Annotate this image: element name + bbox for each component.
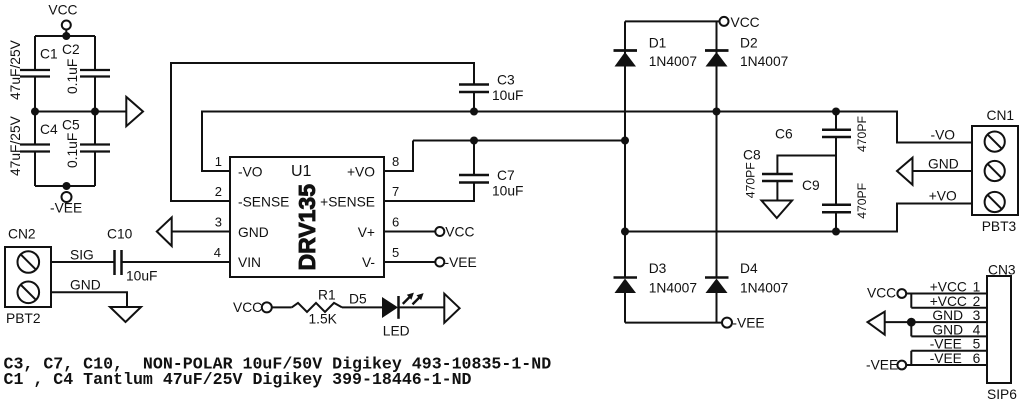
svg-text:470PF: 470PF	[855, 183, 869, 219]
wire CN3 pin4 tie	[911, 322, 987, 336]
junction dot C3 bottom	[470, 108, 478, 116]
wire C1 branch	[34, 36, 36, 112]
junction dot C7 top	[470, 137, 478, 145]
svg-text:470PF: 470PF	[744, 162, 758, 198]
svg-text:PBT2: PBT2	[6, 311, 41, 326]
svg-text:D5: D5	[349, 292, 367, 307]
capacitor C1	[20, 70, 50, 77]
svg-text:+VO: +VO	[929, 189, 957, 204]
diode D3 bar	[614, 276, 638, 279]
svg-text:1.5K: 1.5K	[309, 312, 338, 327]
svg-text:1N4007: 1N4007	[740, 54, 788, 69]
svg-text:6: 6	[973, 351, 981, 366]
svg-text:-VO: -VO	[931, 128, 956, 143]
wire VEE bottom bridge	[625, 322, 722, 324]
svg-text:CN1: CN1	[987, 108, 1015, 123]
svg-text:C6: C6	[775, 127, 793, 142]
svg-text:GND: GND	[932, 322, 963, 337]
LED D5 triangle	[382, 297, 398, 318]
svg-text:-VEE: -VEE	[930, 351, 962, 366]
svg-text:R1: R1	[318, 287, 336, 302]
wire CN3 pin5	[911, 350, 987, 352]
svg-text:47uF/25V: 47uF/25V	[8, 115, 23, 176]
svg-text:C1: C1	[40, 47, 58, 62]
svg-text:3: 3	[215, 215, 222, 230]
svg-text:V+: V+	[358, 225, 375, 240]
svg-text:0.1uF: 0.1uF	[65, 133, 80, 168]
svg-text:+VO: +VO	[347, 165, 375, 180]
svg-text:CN2: CN2	[8, 227, 36, 242]
svg-text:GND: GND	[932, 308, 963, 323]
wire +VO lower run	[625, 204, 972, 232]
svg-text:C5: C5	[62, 118, 80, 133]
capacitor C2	[80, 70, 110, 77]
svg-text:D3: D3	[649, 261, 667, 276]
node VCC terminal R1	[262, 302, 272, 312]
wire C-network top	[35, 35, 95, 37]
wire CN3 pin1	[906, 293, 987, 295]
wire C7 top stub	[473, 141, 475, 175]
svg-text:4: 4	[973, 322, 981, 337]
wire C2 branch	[94, 36, 96, 112]
diode D3	[615, 279, 637, 294]
wire C7 bottom to pin7	[384, 183, 474, 201]
junction dot VCC top-left	[62, 32, 70, 40]
svg-text:U1: U1	[291, 163, 312, 180]
node -VEE terminal CN3	[897, 361, 906, 370]
svg-text:C1 , C4 Tantlum 47uF/25V Digik: C1 , C4 Tantlum 47uF/25V Digikey 399-184…	[4, 370, 472, 389]
node -VEE terminal	[62, 192, 72, 202]
svg-text:10uF: 10uF	[492, 88, 523, 103]
svg-text:4: 4	[214, 245, 221, 260]
node VCC terminal pin6	[435, 227, 444, 236]
svg-text:+VCC: +VCC	[930, 280, 967, 295]
wire CN3 pin2 tie	[911, 294, 987, 308]
port arrow GND pin3	[157, 217, 172, 246]
svg-text:-VEE: -VEE	[50, 201, 82, 216]
svg-text:GND: GND	[238, 225, 269, 240]
svg-text:1N4007: 1N4007	[740, 281, 788, 296]
capacitor C10	[115, 250, 122, 275]
wire D2-D4 column	[716, 21, 718, 322]
port arrow CN3 GND	[868, 312, 885, 335]
wire SIG	[51, 261, 114, 263]
diode D1	[615, 52, 637, 67]
junction dot mid-left	[31, 108, 39, 116]
svg-text:C8: C8	[743, 148, 761, 163]
node VEE terminal pin5	[435, 258, 444, 267]
wire pin1 -VO net	[202, 112, 972, 172]
svg-text:5: 5	[973, 337, 981, 352]
wire pin3 GND	[172, 231, 230, 233]
junction dot D3 cathode	[621, 228, 629, 236]
svg-text:-VEE: -VEE	[866, 358, 898, 373]
svg-text:+VCC: +VCC	[930, 294, 967, 309]
svg-text:-SENSE: -SENSE	[238, 195, 289, 210]
svg-text:GND: GND	[928, 157, 959, 172]
svg-text:2: 2	[215, 184, 222, 199]
svg-text:10uF: 10uF	[126, 269, 157, 284]
svg-text:-VO: -VO	[238, 165, 263, 180]
svg-text:10uF: 10uF	[492, 184, 523, 199]
wire C5 branch	[94, 112, 96, 187]
junction dot C9 bottom	[832, 228, 840, 236]
wire C4 branch	[34, 112, 36, 187]
junction dot bottom-left net	[63, 182, 71, 190]
node VEE terminal bridge	[722, 318, 732, 328]
port arrow CN1 GND	[897, 158, 913, 185]
svg-text:D2: D2	[740, 36, 758, 51]
svg-text:C3: C3	[497, 73, 515, 88]
wire C6 to C9	[835, 138, 837, 204]
diode D4 bar	[705, 276, 729, 279]
svg-text:1: 1	[973, 280, 981, 295]
wire GND from CN2	[51, 292, 127, 307]
capacitor C7	[459, 175, 489, 183]
LED D5 emission arrow 2	[413, 298, 420, 305]
svg-text:CN3: CN3	[988, 263, 1016, 278]
junction dot D2 anode	[713, 108, 721, 116]
junction dot mid-right	[91, 108, 99, 116]
svg-text:D4: D4	[740, 261, 758, 276]
svg-text:0.1uF: 0.1uF	[65, 59, 80, 94]
svg-text:VCC: VCC	[445, 225, 474, 240]
svg-text:GND: GND	[70, 278, 101, 293]
svg-text:D1: D1	[649, 36, 667, 51]
wire R1 to D5	[342, 306, 382, 308]
svg-text:1: 1	[215, 154, 222, 169]
svg-text:V-: V-	[362, 255, 375, 270]
wire C3 bottom stub	[473, 93, 475, 112]
svg-text:6: 6	[392, 215, 399, 230]
svg-text:C10: C10	[107, 227, 133, 242]
screw terminal CN2-2	[18, 282, 40, 304]
svg-text:47uF/25V: 47uF/25V	[8, 39, 23, 100]
svg-text:DRV135: DRV135	[294, 184, 320, 271]
node VCC top-left terminal	[62, 21, 71, 30]
svg-text:2: 2	[973, 294, 981, 309]
svg-text:C9: C9	[802, 178, 820, 193]
capacitor C4	[20, 145, 50, 152]
svg-text:C7: C7	[497, 168, 515, 183]
junction dot C6 top	[832, 108, 840, 116]
screw terminal CN1-2	[985, 161, 1005, 181]
wire pin8 +VO net	[384, 141, 625, 172]
screw terminal CN2-1	[18, 251, 40, 273]
screw terminal CN1-3	[985, 192, 1005, 212]
diode D2 bar	[705, 49, 729, 52]
svg-text:470PF: 470PF	[855, 116, 869, 152]
wire C8 to ground	[776, 182, 778, 201]
node VCC terminal bridge	[720, 17, 729, 26]
wire pin6 V+	[384, 231, 435, 233]
svg-text:1N4007: 1N4007	[649, 281, 697, 296]
connector CN2 body	[5, 247, 51, 307]
connector CN3 body	[987, 276, 1011, 383]
resistor R1	[292, 303, 342, 312]
junction dot D1 anode	[621, 137, 629, 145]
wire C-network middle	[35, 111, 127, 113]
svg-text:C2: C2	[62, 42, 80, 57]
svg-text:8: 8	[392, 154, 399, 169]
ground symbol CN2	[110, 307, 141, 322]
node VCC terminal CN3	[897, 289, 906, 298]
wire C8 branch	[777, 156, 836, 174]
wire pin4 VIN from C10	[123, 261, 231, 263]
wire CN3 pin6 tie	[906, 351, 987, 365]
wire D5 to arrow	[400, 306, 445, 308]
svg-text:VCC: VCC	[48, 3, 77, 18]
diode D4	[706, 279, 728, 294]
wire CN3 pin3	[885, 321, 987, 323]
diode D1 bar	[614, 49, 638, 52]
svg-text:VIN: VIN	[238, 255, 261, 270]
wire VCC to R1	[272, 306, 292, 308]
port arrow mid-node	[126, 97, 143, 126]
connector CN1 body	[972, 126, 1018, 215]
capacitor C3	[459, 85, 489, 93]
wire VCC stub	[65, 30, 67, 37]
svg-text:VCC: VCC	[731, 15, 760, 30]
svg-text:3: 3	[973, 308, 981, 323]
wire D1-D3 column	[624, 21, 626, 322]
svg-text:1N4007: 1N4007	[649, 54, 697, 69]
wire CN1 GND	[913, 170, 973, 172]
diode D2	[706, 52, 728, 67]
svg-text:C4: C4	[40, 122, 58, 137]
svg-text:SIG: SIG	[70, 248, 94, 263]
op-amp U1 DRV135 body	[230, 157, 384, 277]
capacitor C6	[822, 130, 851, 137]
svg-text:PBT3: PBT3	[982, 219, 1017, 234]
wire pin5 V-	[384, 261, 435, 263]
wire pin2 -SENSE to C3 top	[171, 63, 474, 201]
wire VCC top bridge	[625, 20, 719, 22]
capacitor C9	[822, 205, 851, 213]
screw terminal CN1-1	[985, 132, 1005, 152]
wire C-network bottom	[35, 185, 95, 187]
svg-text:VCC: VCC	[233, 300, 262, 315]
svg-text:7: 7	[392, 184, 399, 199]
junction dot CN3 GND	[907, 318, 916, 327]
LED D5 emission arrow 1	[403, 297, 410, 304]
wire C6-C9 column top	[835, 112, 837, 130]
svg-text:+SENSE: +SENSE	[320, 195, 375, 210]
svg-text:SIP6: SIP6	[987, 387, 1017, 402]
ground symbol C8	[762, 201, 793, 219]
wire C9 bottom stub	[835, 213, 837, 232]
LED D5 cathode bar	[397, 296, 400, 319]
svg-text:-VEE: -VEE	[445, 255, 477, 270]
svg-text:-VEE: -VEE	[732, 316, 764, 331]
svg-text:VCC: VCC	[867, 286, 896, 301]
svg-text:LED: LED	[383, 324, 410, 339]
capacitor C8	[762, 174, 793, 181]
svg-text:5: 5	[392, 245, 399, 260]
svg-text:-VEE: -VEE	[930, 337, 962, 352]
capacitor C5	[80, 145, 110, 152]
port arrow LED net	[444, 294, 459, 323]
